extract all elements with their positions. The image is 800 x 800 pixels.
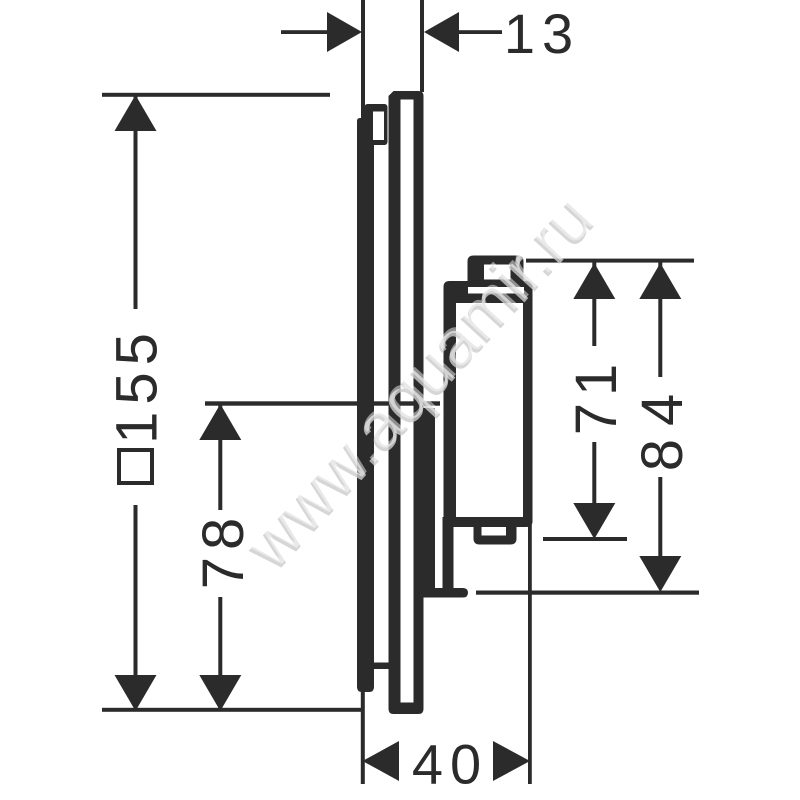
valve body flange [444,281,533,303]
body wall lower extension [443,517,454,590]
dim 155 bottom tick [102,708,361,712]
dim 40 right arrow [493,741,530,781]
dim 78 line upper [218,404,222,510]
top knob [468,256,524,285]
dim 40 left arrow [363,741,400,781]
dim 71 bottom arrow [573,503,615,539]
dim 13 right arrow [424,12,459,52]
dim 155 square symbol [119,450,152,483]
plate slot divider [370,663,389,670]
dim 13 left extension line [361,0,365,118]
dim 71 line upper [592,262,596,346]
dim 78 top tick [205,401,440,405]
connector foot [415,588,468,598]
dim 84 bottom tick [476,591,699,595]
bottom knob [474,527,517,545]
escutcheon plate outline [389,91,424,714]
dim 78 top arrow [199,404,241,440]
dim 78 label [191,511,256,590]
dim 40 left extension line [361,691,365,784]
dim 71 line lower [592,442,596,504]
valve body bottom [444,517,533,527]
dim 84 bottom arrow [639,556,681,592]
dim 155 top arrow [115,95,157,131]
svg-text:71: 71 [564,357,629,436]
valve body walls [444,300,457,527]
dim 71 bottom tick [543,537,627,541]
dim 84 line upper [658,262,662,377]
dim 84 line lower [658,477,662,557]
dim 84 label [630,381,695,472]
dim 155 line upper [134,96,138,309]
dim 78 line lower [218,597,222,711]
watermark www.aquamir.ru [228,179,609,585]
wall plate front sliver [357,118,374,692]
dim 155 line lower [134,505,138,711]
svg-text:84: 84 [630,381,695,472]
dim 78 bottom arrow [199,675,241,711]
dim 40 right extension line [528,522,532,784]
connector bar [422,408,435,594]
svg-text:13: 13 [504,2,580,65]
dim 13 left arrow [327,12,362,52]
dim 71 top arrow [573,263,615,299]
dim 71-84 top tick [526,259,694,263]
plate top cap detail [365,104,388,145]
dim 71 label [564,357,629,436]
svg-text:40: 40 [412,733,488,796]
dim 155 top tick [102,93,330,97]
svg-text:155: 155 [105,326,170,444]
dim 155 label [105,326,170,444]
dim 13 right extension line [420,0,424,92]
dim 84 top arrow [639,263,681,299]
dim 155 bottom arrow [115,675,157,711]
